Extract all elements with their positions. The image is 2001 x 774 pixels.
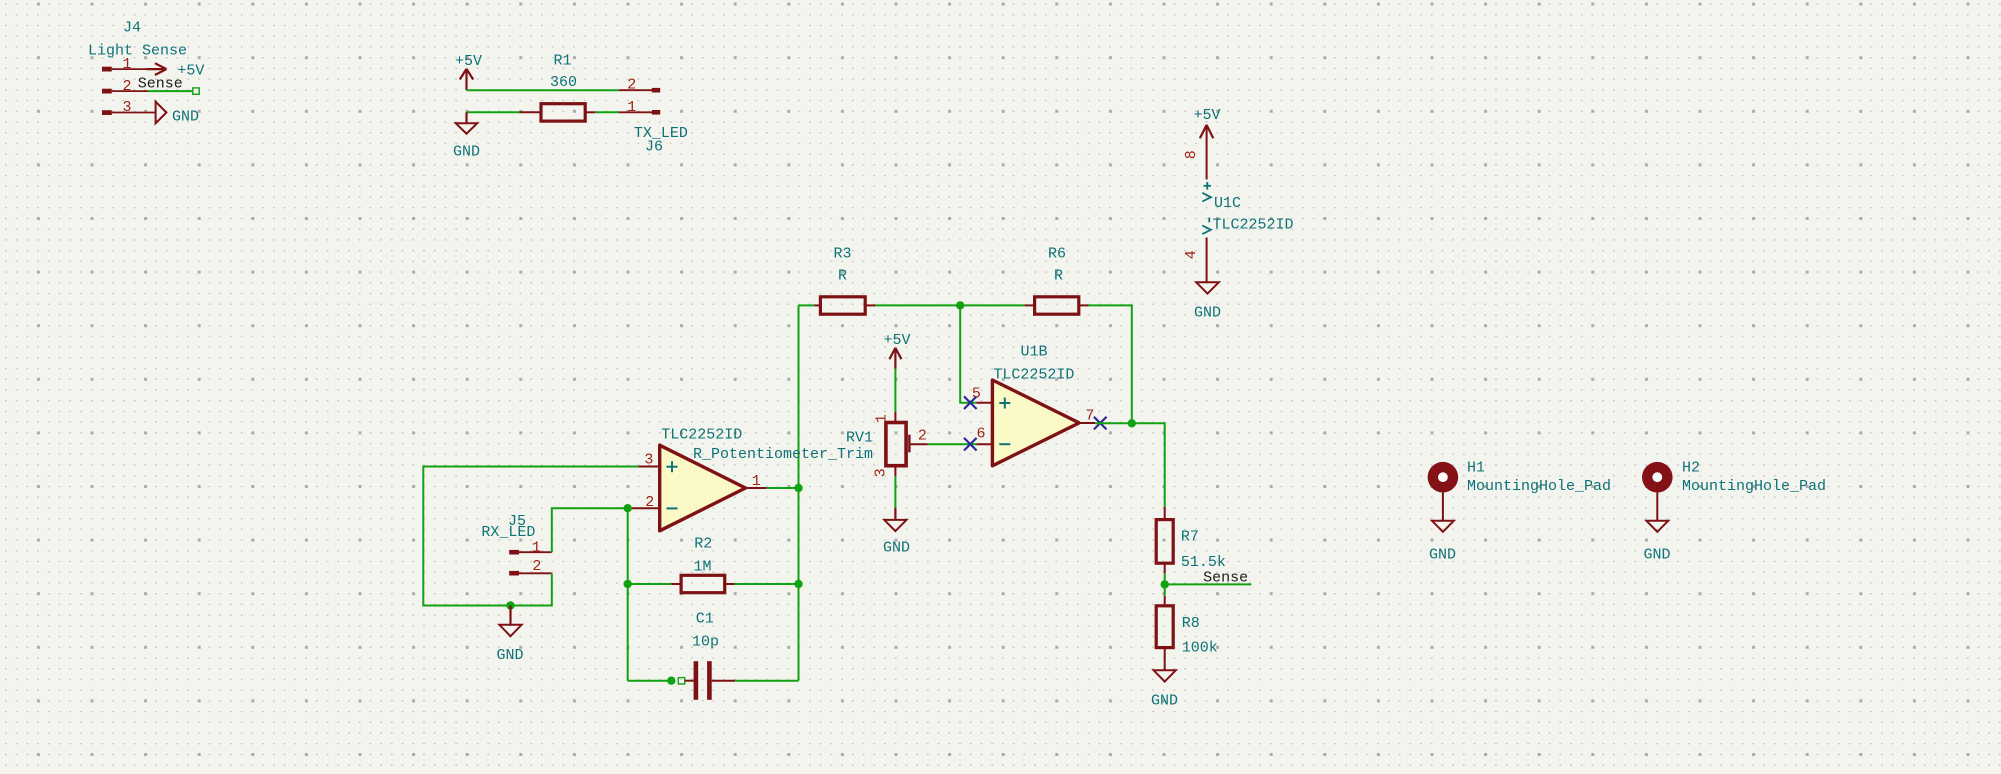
wire R7 to R8 xyxy=(1164,573,1166,595)
capacitor C1 xyxy=(685,661,735,700)
op-amp U1C V+ mark xyxy=(1202,182,1211,202)
wire inverting input vertical xyxy=(627,508,629,681)
resistor R2 xyxy=(671,575,734,592)
svg-text:GND: GND xyxy=(1151,693,1178,710)
unconnected wire end marker at C1 xyxy=(678,678,684,684)
svg-text:1: 1 xyxy=(122,56,131,73)
resistor R8 xyxy=(1156,596,1173,671)
svg-text:MountingHole_Pad: MountingHole_Pad xyxy=(1467,478,1611,495)
op-amp U1C power unit pin 4 xyxy=(1206,238,1208,283)
power symbol +5V at U1C pin 8 xyxy=(1193,107,1220,139)
junction node xyxy=(956,301,964,309)
svg-text:5: 5 xyxy=(972,385,981,402)
junction node Sense xyxy=(1161,580,1169,588)
wire R3 left xyxy=(799,304,815,306)
wire U1B output to R7 xyxy=(1095,423,1165,507)
svg-text:GND: GND xyxy=(172,109,199,126)
svg-text:+5V: +5V xyxy=(1193,107,1220,124)
svg-text:7: 7 xyxy=(1085,408,1094,425)
power symbol +5V at R1 net xyxy=(455,53,482,90)
svg-text:U1B: U1B xyxy=(1021,344,1048,361)
power symbol GND at U1C pin 4 xyxy=(1194,282,1221,321)
wire R2 right xyxy=(735,583,799,585)
svg-text:U1C: U1C xyxy=(1214,195,1241,212)
wire R2 left xyxy=(628,583,672,585)
svg-text:100k: 100k xyxy=(1182,639,1218,656)
wire Sense from J4 pin 2 xyxy=(148,90,193,92)
junction node R2 right xyxy=(794,580,802,588)
resistor R6 xyxy=(1025,297,1089,314)
junction node C1 left xyxy=(667,677,675,685)
svg-text:2: 2 xyxy=(532,558,541,575)
wire GND to R1 left xyxy=(467,111,520,113)
wire J5 pin 1 to U1A pin 2 xyxy=(552,508,632,552)
svg-text:2: 2 xyxy=(918,428,927,445)
svg-text:1M: 1M xyxy=(693,559,711,576)
op-amp U1B output pin 7 xyxy=(1079,422,1095,424)
svg-text:J4: J4 xyxy=(123,20,141,37)
svg-text:2: 2 xyxy=(627,76,636,93)
svg-text:Sense: Sense xyxy=(1203,569,1248,586)
svg-text:H2: H2 xyxy=(1682,459,1700,476)
junction node U1A output xyxy=(794,484,802,492)
svg-text:8: 8 xyxy=(1183,150,1200,159)
svg-text:GND: GND xyxy=(1429,547,1456,564)
wire R6 right down to U1B output xyxy=(1088,305,1131,423)
op-amp U1A output pin 1 xyxy=(746,487,767,489)
power symbol GND at H1 xyxy=(1429,521,1456,564)
svg-text:Light Sense: Light Sense xyxy=(88,43,187,60)
svg-text:RX_LED: RX_LED xyxy=(481,524,535,541)
svg-text:+5V: +5V xyxy=(455,53,482,70)
mounting hole H2 xyxy=(1642,462,1673,521)
connector J4 Light Sense xyxy=(88,20,187,116)
wire RV1 wiper to U1B pin 6 xyxy=(928,443,977,445)
power symbol GND at RV1 pin 3 xyxy=(883,508,910,557)
mounting hole H1 xyxy=(1428,462,1459,521)
potentiometer RV1 xyxy=(886,412,928,476)
wire R3 to R6 xyxy=(875,304,1024,306)
svg-text:MountingHole_Pad: MountingHole_Pad xyxy=(1682,478,1826,495)
svg-text:10p: 10p xyxy=(692,634,719,651)
connector J6 TX_LED xyxy=(619,88,660,115)
svg-text:J6: J6 xyxy=(645,139,663,156)
resistor R7 xyxy=(1156,507,1173,573)
svg-text:H1: H1 xyxy=(1467,459,1485,476)
wire C1 right xyxy=(735,680,798,682)
svg-text:R1: R1 xyxy=(553,53,571,70)
svg-text:R: R xyxy=(1054,268,1063,285)
svg-text:2: 2 xyxy=(122,78,131,95)
svg-text:+5V: +5V xyxy=(883,332,910,349)
svg-text:C1: C1 xyxy=(696,611,714,628)
connector J5 RX_LED xyxy=(509,550,552,576)
junction node xyxy=(1128,419,1136,427)
svg-text:Sense: Sense xyxy=(138,75,183,92)
op-amp U1C power unit pin 8 xyxy=(1206,125,1208,180)
op-amp U1B xyxy=(976,380,1079,466)
svg-text:1: 1 xyxy=(873,414,890,423)
wire J5 pin 2 loop to U1A pin 3 xyxy=(423,467,638,606)
unconnected wire end marker xyxy=(193,88,199,94)
no-connect flag at pin 5 xyxy=(964,396,977,409)
svg-text:3: 3 xyxy=(872,468,889,477)
junction node pin 2 xyxy=(624,504,632,512)
svg-text:R: R xyxy=(838,268,847,285)
svg-text:4: 4 xyxy=(1183,250,1200,259)
wire Sense tap xyxy=(1165,583,1252,585)
svg-text:GND: GND xyxy=(496,647,523,664)
wire +5V to J6 pin 2 xyxy=(467,89,619,91)
wire RV1 pin 3 to GND xyxy=(894,476,896,508)
svg-text:R2: R2 xyxy=(694,536,712,553)
svg-text:1: 1 xyxy=(627,99,636,116)
svg-text:GND: GND xyxy=(883,540,910,557)
resistor R3 xyxy=(814,297,875,314)
svg-text:R3: R3 xyxy=(833,246,851,263)
svg-text:GND: GND xyxy=(1643,547,1670,564)
wire U1A output to feedback xyxy=(767,487,799,489)
no-connect flag at pin 6 xyxy=(964,438,977,451)
svg-text:R_Potentiometer_Trim: R_Potentiometer_Trim xyxy=(693,446,873,463)
wire R1 right to J6 pin 1 xyxy=(595,111,619,113)
wire feedback vertical left of R3 xyxy=(798,305,800,680)
junction node R2 left xyxy=(624,580,632,588)
power symbol GND at J4 pin 3 xyxy=(156,102,199,126)
svg-text:1: 1 xyxy=(532,540,541,557)
svg-text:GND: GND xyxy=(453,143,480,160)
wire C1 left xyxy=(628,680,672,682)
svg-text:RV1: RV1 xyxy=(846,429,873,446)
resistor R1 xyxy=(520,104,596,121)
junction node GND tap xyxy=(506,601,514,609)
wire +5V to RV1 xyxy=(894,369,896,412)
svg-text:TLC2252ID: TLC2252ID xyxy=(661,427,742,444)
power symbol GND below R1 net xyxy=(453,112,480,160)
svg-text:360: 360 xyxy=(550,74,577,91)
svg-text:GND: GND xyxy=(1194,305,1221,322)
svg-text:R7: R7 xyxy=(1181,529,1199,546)
power symbol GND at J5 xyxy=(496,606,523,664)
svg-text:R6: R6 xyxy=(1048,246,1066,263)
svg-text:TLC2252ID: TLC2252ID xyxy=(1213,217,1294,234)
wire junction to U1B pin 5 xyxy=(960,305,976,402)
svg-text:3: 3 xyxy=(644,452,653,469)
power symbol GND at H2 xyxy=(1643,521,1670,564)
op-amp U1A xyxy=(632,445,746,531)
power symbol +5V at J4 pin 1 xyxy=(147,63,204,80)
power symbol GND at R8 xyxy=(1151,670,1178,709)
svg-text:R8: R8 xyxy=(1182,615,1200,632)
no-connect flag at pin 7 xyxy=(1094,417,1107,430)
svg-text:2: 2 xyxy=(645,494,654,511)
op-amp U1C V- mark xyxy=(1202,218,1211,235)
svg-text:3: 3 xyxy=(122,99,131,116)
svg-text:TLC2252ID: TLC2252ID xyxy=(993,367,1074,384)
power symbol +5V at RV1 pin 1 xyxy=(883,332,910,369)
svg-text:6: 6 xyxy=(976,426,985,443)
